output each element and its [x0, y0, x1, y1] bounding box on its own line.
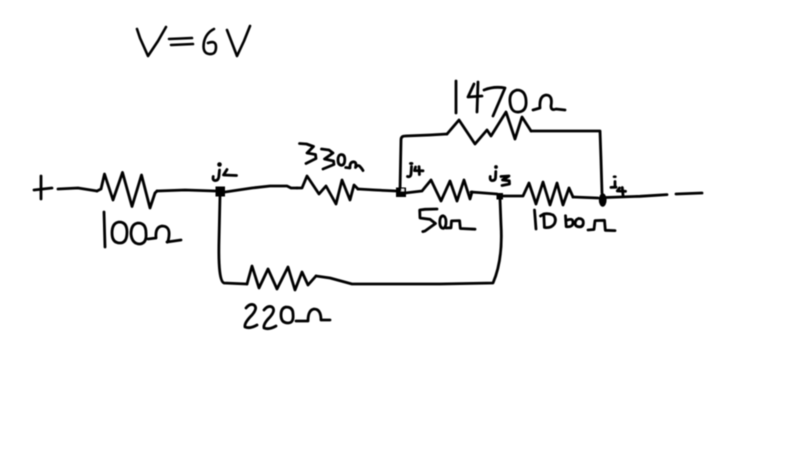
resistor R1 100ohm [97, 173, 157, 209]
label j4 [408, 162, 424, 177]
wire R3 to node j3 [471, 192, 497, 194]
wire R6 to bottom right corner and up to j3 [316, 199, 501, 284]
terminal - (negative) [676, 193, 702, 194]
wire top branch left (j4 up and across) [400, 134, 447, 190]
resistor R6 220ohm [247, 266, 316, 290]
label 330ohm [300, 144, 364, 171]
wire + terminal to R1 [58, 188, 97, 191]
resistor R4 1000ohm [503, 182, 573, 205]
label j3 [490, 165, 509, 185]
wire i4 to negative terminal [606, 195, 667, 198]
label 1000ohm [535, 210, 616, 231]
wire bottom branch left (j2 down and across) [219, 196, 247, 284]
node i4 [599, 193, 607, 207]
wire R2 to node j4 [358, 189, 396, 191]
label 1470ohm [456, 81, 565, 116]
label V=6V source voltage [137, 26, 250, 56]
resistor R3 50ohm [405, 180, 472, 201]
label 100ohm [104, 212, 181, 247]
wire R4 to node i4 [573, 197, 598, 198]
label j2 [213, 162, 236, 180]
node j2 [216, 187, 226, 197]
terminal + (positive) [34, 176, 52, 199]
wire j2 to R2 [225, 186, 297, 192]
wire top branch right (across and down to i4) [531, 131, 602, 193]
resistor R2 330ohm [297, 176, 358, 204]
wire R1 to node j2 [157, 190, 215, 191]
node j3 [497, 193, 504, 200]
resistor R5 1470ohm [447, 112, 531, 144]
label 220ohm [245, 304, 330, 328]
label 50ohm [420, 209, 475, 232]
node j4 [396, 188, 406, 198]
label i4 [611, 175, 626, 195]
